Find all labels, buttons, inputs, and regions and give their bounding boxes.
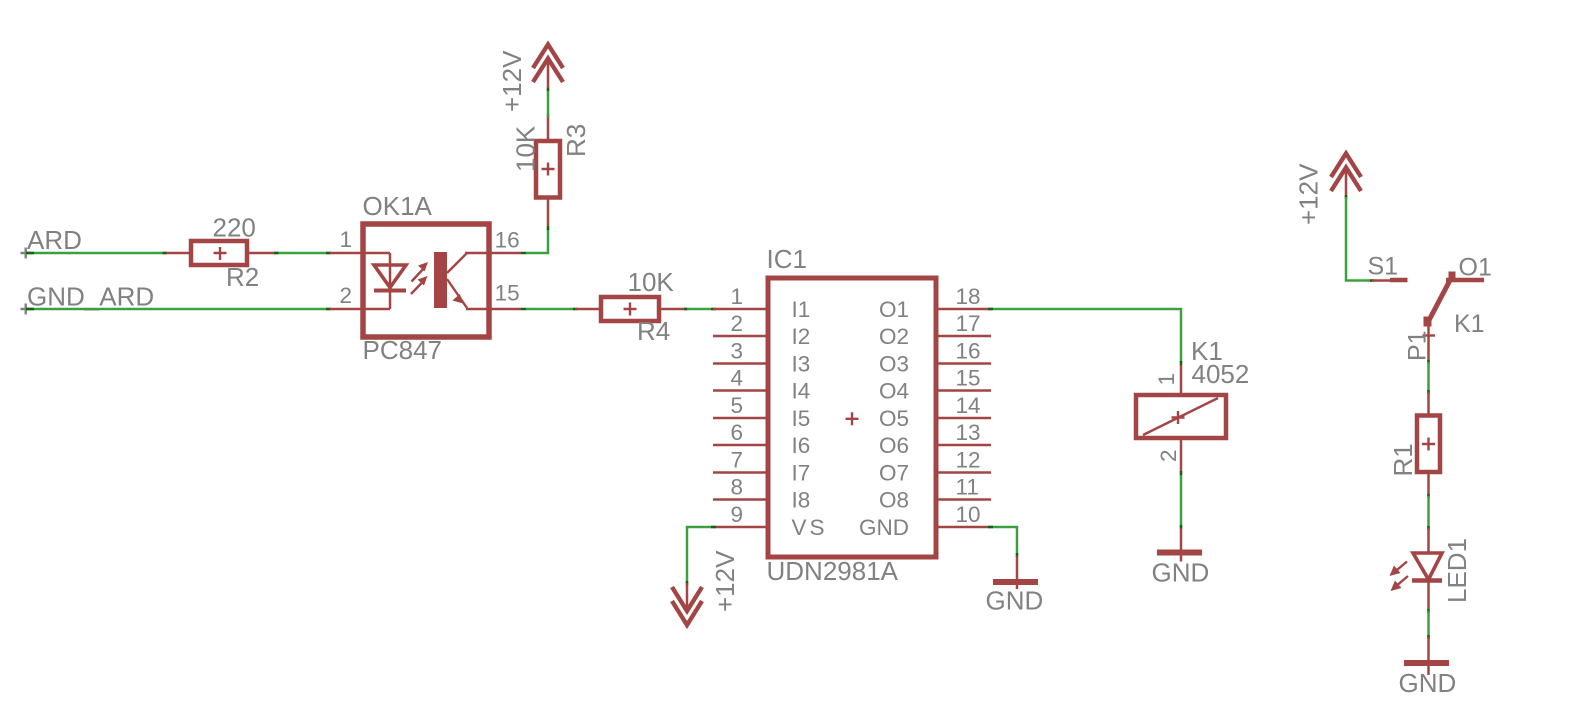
svg-text:GND_ARD: GND_ARD: [27, 282, 154, 312]
svg-text:5: 5: [730, 393, 743, 418]
junction dot pin16: [521, 252, 526, 255]
svg-text:P1: P1: [1404, 330, 1432, 361]
svg-text:10K: 10K: [511, 125, 541, 172]
svg-text:O3: O3: [879, 352, 909, 377]
svg-text:R1: R1: [1388, 443, 1418, 476]
IC IC1 UDN2981A body: [768, 278, 936, 557]
relay coil K1: [1136, 365, 1226, 473]
wire GND_ARD net: [26, 308, 330, 311]
wire pin16 to R3: [526, 228, 548, 253]
svg-text:2: 2: [730, 311, 743, 336]
svg-text:220: 220: [213, 213, 256, 243]
svg-text:12: 12: [956, 448, 981, 473]
svg-text:GND: GND: [1152, 558, 1210, 588]
junction dot R4 left: [573, 308, 578, 311]
svg-text:O4: O4: [879, 379, 909, 404]
svg-text:4: 4: [730, 366, 743, 391]
svg-text:10: 10: [956, 502, 981, 527]
svg-text:+12V: +12V: [1294, 163, 1324, 225]
svg-text:+12V: +12V: [497, 50, 527, 112]
switch S contact lead: [1372, 279, 1392, 282]
pin 15 lead: [489, 308, 521, 311]
wire ARD net: [26, 252, 166, 255]
svg-text:I5: I5: [792, 406, 811, 431]
supply +12V arrow right: [1331, 154, 1361, 198]
svg-text:VS: VS: [792, 515, 828, 540]
svg-text:PC847: PC847: [363, 335, 443, 365]
svg-text:11: 11: [956, 475, 979, 500]
svg-text:18: 18: [956, 284, 981, 309]
LED LED1: [1390, 528, 1443, 610]
svg-text:I2: I2: [792, 324, 811, 349]
junction dot pin9: [711, 526, 716, 529]
resistor R4: [575, 297, 687, 321]
svg-text:O8: O8: [879, 488, 909, 513]
wire GND_ARD dark end: [26, 308, 34, 311]
wire R3 to +12V: [547, 89, 550, 117]
junction dot K1 gnd: [1180, 525, 1183, 529]
svg-text:I4: I4: [792, 379, 811, 404]
svg-text:6: 6: [730, 420, 743, 445]
svg-text:15: 15: [495, 281, 520, 306]
svg-text:O6: O6: [879, 433, 909, 458]
svg-text:I3: I3: [792, 352, 811, 377]
junction dot R4 right: [684, 308, 689, 311]
svg-text:7: 7: [730, 448, 743, 473]
junction dot R1 top: [1427, 390, 1430, 394]
IC1 origin cross: [846, 412, 859, 425]
junction dot pin10: [988, 526, 993, 529]
svg-text:R4: R4: [637, 316, 670, 346]
svg-text:I1: I1: [792, 297, 811, 322]
svg-text:OK1A: OK1A: [363, 191, 433, 221]
svg-text:1: 1: [1154, 373, 1179, 386]
wire pin10 to GND: [991, 527, 1017, 555]
svg-text:8: 8: [730, 475, 743, 500]
svg-text:LED1: LED1: [1442, 538, 1472, 603]
wire R2 to OK1A pin1: [276, 252, 330, 255]
wire R4 to IC1 pin1: [687, 308, 713, 311]
svg-text:I6: I6: [792, 433, 811, 458]
junction dot S contact: [1370, 279, 1374, 282]
svg-text:GND: GND: [1399, 668, 1457, 698]
IC1 left pins 1-9: [713, 309, 768, 527]
junction dot arrow3: [1345, 195, 1348, 199]
svg-text:14: 14: [956, 393, 981, 418]
ground symbol (LED1): [1404, 637, 1449, 675]
svg-text:O2: O2: [879, 324, 909, 349]
supply +12V arrow top-left: [533, 45, 563, 89]
wire P1 to R1: [1427, 362, 1430, 392]
IC1 right pins 18-10: [936, 309, 991, 527]
switch lever K1: [1424, 272, 1456, 327]
svg-text:I7: I7: [792, 461, 811, 486]
svg-text:GND: GND: [859, 515, 909, 540]
wire K1 pin2 to GND: [1180, 475, 1183, 528]
junction dot arrow2: [686, 581, 689, 585]
IC1 left pin numbers: [730, 284, 743, 527]
svg-text:R2: R2: [226, 262, 259, 292]
svg-text:IC1: IC1: [767, 244, 807, 274]
svg-text:1: 1: [730, 284, 743, 309]
junction dot pin18: [988, 308, 993, 311]
svg-text:10K: 10K: [628, 267, 675, 297]
junction dot K1 pin2: [1180, 471, 1183, 476]
ground symbol (IC1 pin10): [993, 556, 1038, 589]
svg-text:GND: GND: [986, 586, 1044, 616]
IC1 output labels O1-O8 GND: [859, 297, 909, 540]
svg-text:3: 3: [730, 339, 743, 364]
node GND_ARD origin cross: [21, 304, 32, 315]
ground symbol (K1): [1157, 528, 1202, 562]
svg-text:15: 15: [956, 366, 981, 391]
IC1 input labels I1-I8 VS: [792, 297, 828, 540]
wire LED1 to GND: [1427, 611, 1430, 638]
svg-text:16: 16: [495, 228, 520, 253]
junction dot IC pin1: [711, 308, 716, 311]
junction dot R2 right: [274, 252, 279, 255]
junction dot R3 bottom: [547, 226, 550, 230]
junction dot R2 left: [163, 252, 168, 255]
svg-text:2: 2: [1156, 449, 1181, 462]
wire pin15 to R4: [526, 308, 575, 311]
svg-text:UDN2981A: UDN2981A: [767, 556, 899, 586]
svg-text:17: 17: [956, 311, 981, 336]
wire pin18 to K1: [991, 309, 1181, 363]
junction dot pin15: [521, 308, 526, 311]
svg-text:9: 9: [730, 502, 743, 527]
svg-text:ARD: ARD: [27, 225, 82, 255]
switch S contact plate: [1390, 278, 1408, 283]
junction dot LED top: [1427, 526, 1430, 530]
pin 16 lead: [489, 252, 521, 255]
wire VS pin9 to +12V arrow: [687, 527, 713, 583]
wire +12V to S contact: [1346, 197, 1372, 281]
junction dot gnd2: [1016, 553, 1019, 557]
junction dot gnd3: [1427, 635, 1430, 639]
svg-text:O1: O1: [879, 297, 909, 322]
node ARD origin cross: [21, 248, 32, 259]
svg-text:4052: 4052: [1192, 359, 1250, 389]
junction dot P1: [1427, 360, 1430, 364]
junction dot LED bottom: [1427, 609, 1430, 613]
junction dot pin1: [326, 252, 331, 255]
svg-text:2: 2: [339, 283, 352, 308]
switch O contact plate: [1446, 278, 1484, 283]
junction dot arrow1: [547, 87, 550, 91]
svg-text:K1: K1: [1454, 310, 1485, 338]
svg-text:O5: O5: [879, 406, 909, 431]
svg-text:16: 16: [956, 339, 981, 364]
junction dot R1 bottom: [1427, 494, 1430, 498]
supply +12V arrow down (at VS): [672, 583, 702, 625]
IC1 right pin numbers: [956, 284, 981, 527]
svg-text:1: 1: [339, 227, 352, 252]
junction dot K1 pin1: [1180, 361, 1183, 365]
switch common pin P1: [1423, 325, 1436, 362]
resistor R1: [1417, 392, 1440, 496]
wire R1 to LED1: [1427, 496, 1430, 528]
resistor R2: [166, 241, 276, 265]
svg-text:13: 13: [956, 420, 981, 445]
svg-text:I8: I8: [792, 488, 811, 513]
junction dot pin2: [326, 308, 331, 311]
svg-text:O7: O7: [879, 461, 909, 486]
svg-text:S1: S1: [1368, 253, 1399, 281]
svg-text:R3: R3: [561, 124, 591, 157]
resistor R3: [536, 114, 560, 226]
wire ARD dark end: [26, 252, 34, 255]
svg-text:O1: O1: [1459, 254, 1492, 282]
svg-text:+12V: +12V: [710, 550, 740, 612]
optocoupler OK1A: [330, 224, 489, 337]
